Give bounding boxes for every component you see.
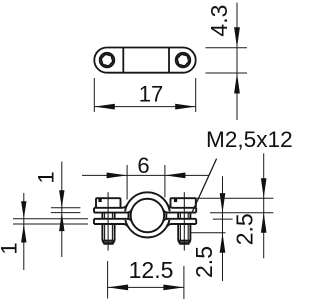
ring inner circle [131,199,165,233]
dim4.3 extension line top [206,47,248,49]
screw right centerline [183,192,185,250]
dim6 extension line right [164,165,166,198]
lower strap bottom edge right with fillet into ring [167,224,197,227]
lower strap top edge left (slit lower lip) [94,219,132,222]
plate division line left [122,48,124,73]
dim2.5 outer: dimension line [263,153,265,258]
dim1 upper arrow up [59,213,64,232]
upper strap bottom edge right (slit upper lip) [163,209,196,212]
screw head right [171,198,196,208]
dim4.3 extension line bottom [206,72,248,74]
dim2.5 inner arrow down [220,193,226,213]
dim2.5 inner arrow up [220,233,226,253]
dim2.5 inner: dimension line [222,176,224,281]
strap right end face lower [195,219,197,224]
slit opening white-out right [167,211,173,220]
dim1 lower: dimension line [23,193,25,270]
plate division line right [168,48,170,73]
upper strap bottom edge left (slit upper lip) [94,209,132,212]
hole right hex socket [176,53,191,66]
screw left centerline [107,192,109,250]
dim2.5 outer arrow down [261,178,267,198]
dim6 arrow pointing right [107,173,128,179]
hole left outer circle [100,53,115,68]
screw left thread lines below [105,224,113,241]
lower strap bottom edge left with fillet into ring [94,224,128,227]
svg-text:4.3: 4.3 [206,5,232,37]
screw head right slot mark [174,198,177,202]
svg-text:2.5: 2.5 [191,246,217,278]
dim4.3 arrow down [234,27,240,48]
dim12.5 arrow left [108,285,129,291]
dim4.3 arrow up [234,73,240,94]
dim2.5 outer arrow up [261,213,267,233]
dim17 arrow right [175,104,196,110]
dim12.5 extension line right [183,266,185,299]
svg-text:12.5: 12.5 [129,257,174,283]
dim1 lower arrow down [21,201,26,219]
screw left shank below [102,224,114,241]
dim1 upper: extension line top [51,207,81,209]
plate outline (stadium) [94,48,195,73]
screw right thread end line [178,240,190,242]
slit end face left [128,212,130,220]
hole left hex socket [100,53,115,66]
svg-text:1: 1 [34,171,59,183]
dim6 arrow pointing left [165,173,186,179]
screw head left [96,198,121,208]
ring outer circle [125,192,170,237]
screw left tip line [104,241,114,243]
screw right tip chamfer [178,241,190,244]
dim2.5 inner: extension line bottom [190,232,225,234]
dim12.5 dimension line [108,286,184,288]
dim1 lower: extension line bottom [13,223,88,225]
dim1 upper arrow down [59,190,64,208]
dim1 lower: extension line top [13,218,88,220]
upper strap top edge left with fillet into ring [94,205,127,208]
hole right outer circle [176,53,191,68]
strap right end face upper [195,208,197,213]
lower strap top edge right (slit lower lip) [163,219,196,222]
strap left end face lower [93,219,95,224]
screw left shank in slit gap [102,213,114,219]
screw head left slot mark [98,198,101,202]
dim1 lower arrow up [21,224,26,243]
dim2.5 outer: extension line bottom (long) [210,212,273,214]
screw right thread lines below [180,224,188,241]
svg-text:1: 1 [0,242,22,254]
dim1 upper: dimension line [61,162,63,258]
svg-text:M2,5x12: M2,5x12 [206,127,293,152]
screw left thread lines in slit gap [105,213,113,219]
screw right shank in slit gap [178,213,190,219]
svg-text:17: 17 [139,82,163,107]
slit opening white-out left [122,211,128,220]
dim2.5 outer: extension line top (long, from screw head) [195,197,274,199]
label leader line [192,159,217,213]
svg-text:6: 6 [137,153,149,178]
dim17 dimension line [94,106,195,108]
slit end face right [165,212,167,220]
strap left end face upper [93,208,95,213]
screw right tip line [179,241,189,243]
dim12.5 arrow right [163,285,184,291]
dim17 arrow left [94,104,115,110]
dim17 extension line left [93,78,95,112]
dim1 upper: extension line bottom [51,212,81,214]
dim4.3 dimension line [236,3,238,121]
dim12.5 extension line left [107,261,109,299]
dim6 extension line left [126,165,128,200]
screw right shank below [178,224,190,241]
dim6 dimension line [82,174,209,176]
screw right thread lines in slit gap [180,213,188,219]
upper strap top edge right with fillet into ring [168,205,197,208]
dim17 extension line right [195,78,197,112]
svg-text:2.5: 2.5 [232,213,258,245]
screw left thread end line [102,240,114,242]
screw left tip chamfer [102,241,114,244]
dim2.5 inner: extension line mid [213,218,233,220]
